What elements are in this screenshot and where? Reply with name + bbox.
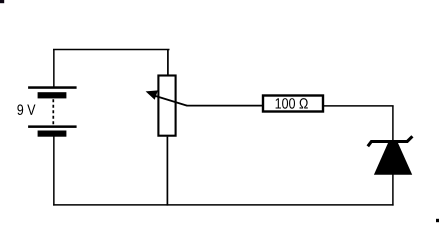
wire: bottom rail	[53, 204, 394, 206]
resistor R1 100 ohm box	[263, 96, 323, 112]
wire: resistor to diode branch corner	[324, 105, 394, 107]
wire: battery positive lead up to top rail	[53, 49, 55, 87]
potentiometer body	[158, 76, 175, 136]
zener diode D1	[368, 136, 413, 174]
wire: top rail (battery + to potentiometer top)	[53, 49, 170, 51]
wire: potentiometer bottom pin down to bottom rail	[166, 137, 168, 206]
potentiometer wiper arrow	[146, 90, 187, 105]
wire: battery negative lead down to bottom rail	[53, 137, 55, 206]
screen artifact mark top-left	[0, 0, 4, 3]
wire: corner down to zener cathode	[392, 106, 394, 142]
battery 9 V	[28, 86, 77, 136]
wire: zener anode down to bottom rail	[392, 175, 394, 206]
screen artifact mark bottom-right	[436, 219, 439, 222]
wire: top rail down to potentiometer top pin	[167, 49, 169, 75]
label: resistor value 100 ohm	[276, 98, 308, 109]
wire: wiper to resistor	[187, 105, 263, 107]
label: battery value 9 V	[17, 104, 35, 115]
